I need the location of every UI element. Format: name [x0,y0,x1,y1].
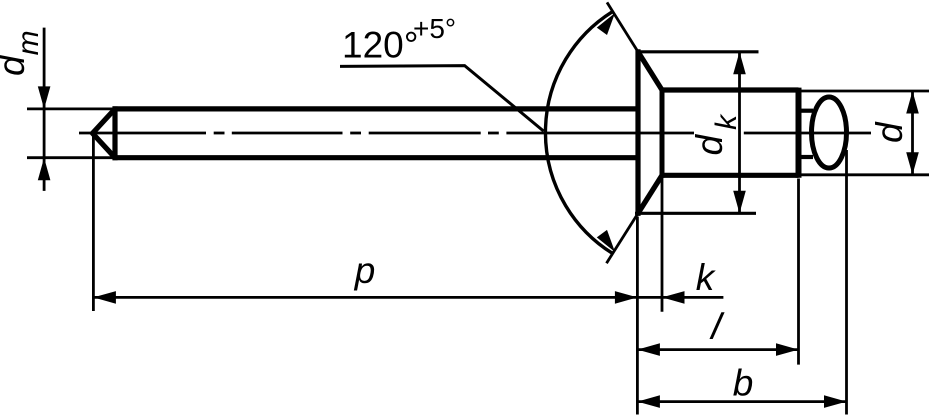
dm extension lines [27,109,113,158]
rivet head (countersunk) face [635,49,640,216]
d extension lines [802,90,929,93]
arc arrow top [597,13,615,35]
head top slant [638,52,662,90]
dm arrows [38,86,51,109]
body right end [796,88,802,178]
d dimension line [911,91,914,175]
slant extension bottom [607,213,639,263]
body right extension line (l) [797,179,800,365]
svg-text:120°: 120° [342,25,419,66]
p left arrow [93,291,116,304]
svg-text:+5°: +5° [413,13,456,44]
label l [707,306,727,347]
slant extension top [607,2,638,51]
mandrel neck [801,111,813,157]
p / k dimension line [93,296,723,299]
l dimension line [637,348,798,351]
body left extension line (k) [661,178,664,312]
dm dimension line [43,28,46,191]
svg-text:b: b [733,363,754,404]
k right arrow [662,291,685,304]
head bottom slant [638,175,662,213]
dk dimension line [738,52,741,214]
mandrel tip cone [93,106,116,160]
centerline [79,132,871,135]
svg-text:k: k [696,257,717,298]
b dimension line [637,400,846,403]
p extension line (tip) [92,136,95,311]
svg-text:p: p [354,250,376,291]
head face extension line [636,217,639,415]
svg-text:d: d [869,121,910,143]
arc arrow bottom [597,230,615,252]
mandrel stem (rod) [113,109,636,158]
angle arc 120deg [545,12,612,253]
dk extension lines [638,50,759,53]
rivet body [662,88,799,178]
ball right extension line (b) [845,150,848,415]
leader line 120deg [340,66,544,132]
p right arrow [615,291,638,304]
mandrel head ball [812,97,847,168]
